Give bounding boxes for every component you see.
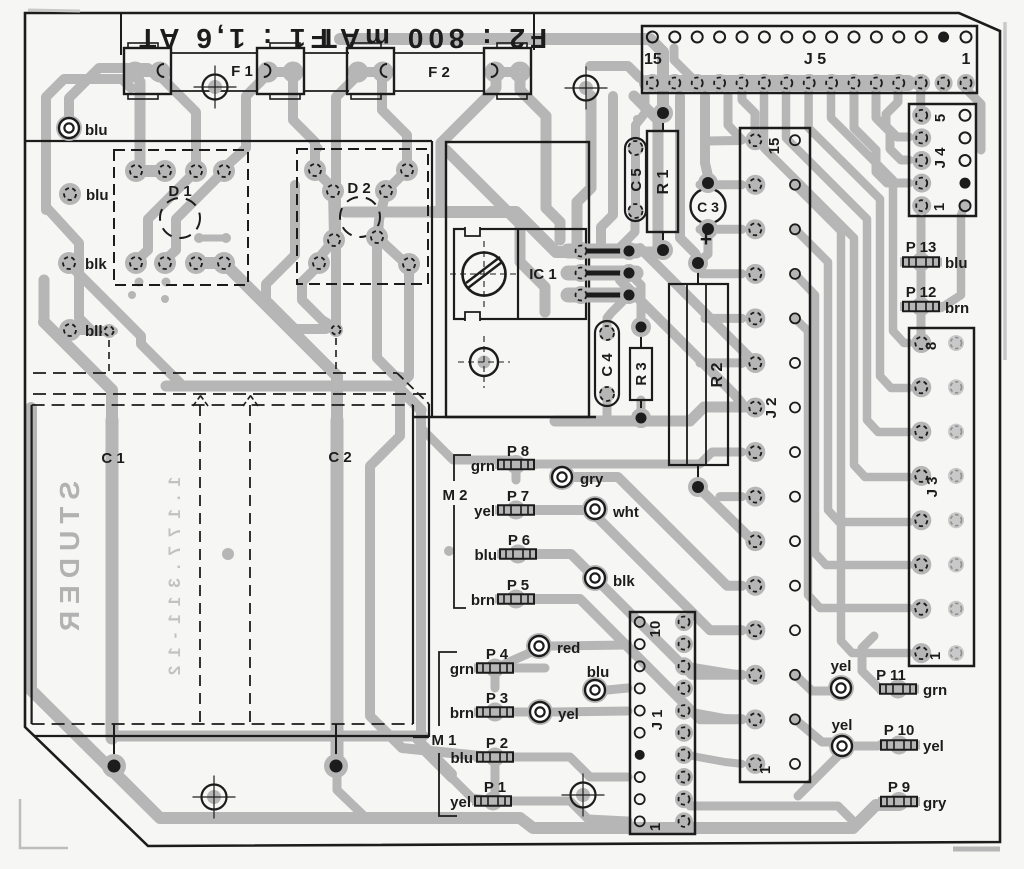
- scan shadow right edge: [1003, 22, 1007, 360]
- svg-text:1: 1: [927, 652, 944, 660]
- wire: [917, 210, 926, 340]
- wire: [601, 96, 613, 246]
- bridge rectifier D1 outline: [114, 150, 248, 285]
- D2 pad 3: [322, 180, 344, 202]
- D1 pad 3: [185, 160, 207, 182]
- wire: [742, 88, 755, 136]
- R1 lead dot bottom: [653, 240, 673, 260]
- small pad: [329, 323, 343, 337]
- J2 pad 14: [745, 175, 765, 195]
- svg-text:gry: gry: [923, 795, 947, 812]
- wire: [70, 327, 114, 335]
- connector J4: [909, 104, 976, 216]
- bracket M1: [439, 652, 457, 816]
- wire: [224, 263, 337, 762]
- J2 pad 8: [745, 442, 765, 462]
- wire: [607, 295, 629, 330]
- wire: [577, 96, 591, 243]
- fuse F1 body: [171, 52, 257, 54]
- J2 hole: [790, 358, 800, 368]
- R2 lead dot top: [688, 253, 708, 273]
- wire: [728, 96, 742, 140]
- wire: [634, 96, 658, 247]
- mounting hole bottom-left: [193, 776, 236, 819]
- svg-text:P 1: P 1: [484, 779, 506, 796]
- svg-text:P 13: P 13: [906, 239, 937, 256]
- J3 pad 2: [911, 599, 931, 619]
- J1 pad 8: [675, 657, 693, 675]
- jumper P12: [900, 297, 942, 316]
- via: [633, 115, 641, 123]
- wire pad blk: [582, 565, 608, 591]
- D1 pad 4: [213, 160, 235, 182]
- wire pad gry: [549, 464, 575, 490]
- IC1 lower hole: [458, 336, 510, 388]
- wire: [687, 666, 742, 675]
- wire: [513, 664, 545, 673]
- svg-text:D 2: D 2: [347, 180, 370, 197]
- J1 hole: [635, 617, 645, 627]
- jumper P1: [472, 792, 514, 811]
- J1 pad 7: [675, 679, 693, 697]
- wire: [112, 731, 423, 742]
- wire: [647, 75, 908, 91]
- IC1 heatsink box: [454, 229, 586, 319]
- J4 pad 5: [912, 106, 931, 125]
- J4 hole: [960, 155, 971, 166]
- D2 pad 6: [366, 226, 388, 248]
- jumper P4: [474, 659, 516, 678]
- wire: [315, 170, 333, 188]
- J1 hole: [635, 816, 645, 826]
- IC1 pin dot 3: [620, 286, 638, 304]
- resistor R3: [630, 348, 652, 400]
- wire: [690, 806, 852, 820]
- J1 hole: [635, 639, 645, 649]
- J2 pad 7: [745, 487, 765, 507]
- wire: [862, 636, 880, 689]
- J2 hole: [790, 135, 800, 145]
- J2 hole: [790, 313, 800, 323]
- J5 pad 8: [800, 74, 818, 92]
- wire: [700, 180, 742, 189]
- wire: [513, 757, 628, 777]
- svg-text:STUDER: STUDER: [54, 481, 85, 638]
- svg-text:R 3: R 3: [633, 362, 650, 385]
- wire: [555, 407, 744, 421]
- dashed region line B: [33, 393, 430, 395]
- strip vertical line: [428, 404, 430, 737]
- J2 hole: [790, 403, 800, 413]
- resistor R2: [669, 284, 728, 465]
- mounting hole top-middle: [565, 67, 608, 110]
- wire: [795, 229, 909, 522]
- wire: [705, 136, 740, 146]
- wire: [224, 72, 270, 168]
- IC1 heatsink divider: [517, 229, 519, 319]
- wire: [702, 269, 742, 278]
- wire: [199, 235, 226, 242]
- capacitor block outline: [32, 405, 429, 736]
- wire: [720, 492, 742, 501]
- J1 pad 2: [675, 790, 693, 808]
- svg-text:F 2: F 2: [428, 64, 450, 81]
- J5 top hole: [871, 32, 882, 43]
- svg-text:8: 8: [923, 342, 940, 350]
- mounting hole top-left: [194, 66, 237, 109]
- wire: [590, 66, 640, 78]
- wire: [302, 266, 335, 328]
- wire pad blu: [582, 677, 608, 703]
- J5 top hole: [849, 32, 860, 43]
- via: [135, 278, 144, 287]
- J2 pad 4: [745, 620, 765, 640]
- svg-text:1.177.311-12: 1.177.311-12: [165, 477, 184, 684]
- J5 top hole: [781, 32, 792, 43]
- wire: [795, 185, 909, 653]
- svg-text:brn: brn: [450, 705, 474, 722]
- J3 pad 4: [911, 510, 931, 530]
- IC1 pin dot 1: [620, 242, 638, 260]
- D2 body circle: [340, 197, 380, 237]
- R3 lead dot bottom: [631, 408, 651, 428]
- J1 hole: [635, 706, 645, 716]
- J2 pad 15: [745, 130, 765, 150]
- svg-text:P 12: P 12: [906, 284, 937, 301]
- R2 lead dot bottom: [688, 477, 708, 497]
- svg-text:P 9: P 9: [888, 779, 910, 796]
- svg-text:R 2: R 2: [709, 362, 726, 387]
- J4 pad 3: [912, 151, 931, 170]
- J2 hole: [790, 180, 800, 190]
- mounting hole bottom-middle: [562, 774, 605, 817]
- svg-text:blk: blk: [85, 256, 107, 273]
- C5 pad top: [628, 140, 644, 156]
- svg-text:yel: yel: [831, 658, 852, 675]
- wire: [575, 477, 742, 586]
- wire: [336, 72, 361, 326]
- D2 pad 5: [323, 229, 345, 251]
- wire: [798, 752, 842, 796]
- IC1 pin pad 2: [572, 264, 590, 282]
- IC1 pin trace 2: [568, 266, 636, 281]
- J2 hole: [790, 447, 800, 457]
- J2 hole: [790, 759, 800, 769]
- wire: [603, 394, 612, 421]
- J3 pad 3: [911, 555, 931, 575]
- connector J5: [642, 26, 977, 93]
- D1 pad 7: [185, 252, 207, 274]
- J2 hole: [790, 269, 800, 279]
- wire: [165, 171, 224, 260]
- connector J3: [909, 328, 974, 666]
- J5 pad 11: [733, 74, 751, 92]
- J5 top hole: [759, 32, 770, 43]
- IC1 pin dot 2: [620, 264, 638, 282]
- wire: [516, 510, 742, 630]
- svg-text:D 1: D 1: [168, 183, 191, 200]
- svg-text:M 1: M 1: [431, 732, 456, 749]
- svg-text:P 6: P 6: [508, 532, 530, 549]
- svg-text:15: 15: [766, 138, 783, 155]
- svg-text:F2 : 800 mAT: F2 : 800 mAT: [315, 23, 547, 54]
- D1 pad 1: [125, 160, 147, 182]
- J5 pad 15: [643, 74, 661, 92]
- jumper P13: [900, 253, 942, 272]
- wire: [31, 600, 897, 828]
- jumper P10: [878, 736, 920, 755]
- wire: [637, 400, 646, 418]
- J2 pad 6: [745, 531, 765, 551]
- wire: [370, 264, 490, 757]
- J4 hole: [960, 110, 971, 121]
- svg-text:1: 1: [931, 203, 948, 211]
- svg-text:R 1: R 1: [655, 169, 672, 194]
- J1 pad 4: [675, 746, 693, 764]
- wire: [698, 487, 753, 541]
- J1 pad 5: [675, 724, 693, 742]
- scan shadow bottom-right: [953, 847, 1000, 852]
- wire: [135, 82, 146, 166]
- wire: [25, 408, 37, 602]
- J4 pad 1: [912, 196, 931, 215]
- wire: [854, 88, 909, 183]
- C2 dashed divider: [249, 405, 251, 724]
- J2 pad 3: [745, 665, 765, 685]
- wire pad blk: [58, 252, 80, 274]
- J5 pad 3: [912, 74, 930, 92]
- J4 hole (filled): [960, 178, 971, 189]
- D1 pad 6: [154, 252, 176, 274]
- fuse clip F2-right: [484, 43, 531, 99]
- J4 pad 2: [912, 174, 931, 193]
- wire: [345, 207, 432, 218]
- svg-text:blu: blu: [451, 750, 474, 767]
- wire: [552, 645, 628, 646]
- J2 pad 10: [745, 353, 765, 373]
- J5 pad 10: [755, 74, 773, 92]
- svg-text:P 11: P 11: [876, 667, 906, 684]
- fuse F2 body: [394, 52, 484, 54]
- C3 lead dot top: [698, 173, 718, 193]
- J3 pad 8: [911, 333, 931, 353]
- C4 pad bottom: [599, 386, 615, 402]
- svg-text:C 4: C 4: [599, 353, 616, 377]
- svg-text:blu: blu: [475, 547, 498, 564]
- svg-text:J 1: J 1: [649, 710, 666, 731]
- J5 pad 5: [867, 74, 885, 92]
- D1 body circle: [160, 198, 200, 238]
- J5 top hole: [669, 32, 680, 43]
- wire: [166, 386, 421, 410]
- D1 pad 2: [154, 160, 176, 182]
- wire: [876, 88, 909, 160]
- svg-text:F 1: F 1: [231, 63, 253, 80]
- svg-text:J 2: J 2: [763, 398, 780, 419]
- svg-text:blk: blk: [613, 573, 635, 590]
- wire: [687, 755, 742, 764]
- J2 hole: [790, 492, 800, 502]
- capacitor C4: [595, 321, 619, 406]
- wire: [382, 72, 407, 167]
- IC1 pin trace 1: [568, 244, 636, 259]
- wire: [75, 270, 180, 383]
- wire: [136, 165, 165, 177]
- wire: [607, 688, 628, 690]
- wire pad yel: [828, 675, 854, 701]
- wire: [516, 599, 742, 719]
- svg-text:yel: yel: [450, 794, 471, 811]
- svg-text:red: red: [557, 640, 580, 657]
- jumper P5: [495, 590, 537, 609]
- separator line below fuses: [25, 140, 432, 142]
- wire: [136, 171, 196, 261]
- J4 pad 4: [912, 128, 931, 147]
- bracket M2: [454, 455, 471, 608]
- IC1 pin lead 1: [586, 249, 626, 254]
- svg-text:15: 15: [644, 51, 662, 68]
- wire: [842, 742, 878, 751]
- wire: [421, 428, 514, 460]
- J1 pad 10: [675, 613, 693, 631]
- svg-text:gry: gry: [580, 471, 604, 488]
- heatsink notch top: [465, 227, 480, 236]
- J3 pad 6: [911, 422, 931, 442]
- wire: [700, 234, 708, 261]
- wire: [680, 96, 698, 259]
- wire: [377, 240, 407, 378]
- J1 pad 9: [675, 635, 693, 653]
- wire: [636, 96, 646, 148]
- jumper P3: [474, 703, 516, 722]
- wire pad yel: [829, 733, 855, 759]
- wire: [491, 673, 500, 688]
- svg-text:P 4: P 4: [486, 646, 509, 663]
- wire: [764, 88, 909, 477]
- wire: [640, 248, 750, 363]
- D2 pad 8: [398, 253, 420, 275]
- wire: [378, 191, 386, 234]
- voltage regulator IC1 outer box: [446, 142, 589, 417]
- vertical line left of IC region: [431, 141, 433, 417]
- wire pad blu (top): [56, 115, 82, 141]
- svg-text:yel: yel: [923, 738, 944, 755]
- wire: [941, 205, 965, 308]
- J5 top hole: [692, 32, 703, 43]
- wire: [441, 74, 496, 212]
- C1 lead: [113, 724, 115, 760]
- scan mark top-left: [28, 10, 80, 11]
- resistor R1: [647, 131, 678, 232]
- C4 pad top: [599, 325, 615, 341]
- J2 hole: [790, 224, 800, 234]
- IC1 pin trace 3: [568, 288, 636, 303]
- svg-text:grn: grn: [923, 682, 947, 699]
- wire: [520, 72, 560, 240]
- svg-text:blu: blu: [85, 122, 108, 139]
- jumper P11: [877, 680, 919, 699]
- svg-text:grn: grn: [450, 661, 474, 678]
- J1 pad 1: [675, 812, 693, 830]
- svg-text:grn: grn: [471, 458, 495, 475]
- svg-text:F1 : 1,6 AT: F1 : 1,6 AT: [134, 23, 327, 54]
- J2 hole: [790, 670, 800, 680]
- wire: [331, 420, 344, 762]
- svg-text:C 1: C 1: [101, 450, 124, 467]
- fuse clip F1-left: [124, 43, 171, 99]
- svg-text:P 8: P 8: [507, 443, 529, 460]
- wire: [700, 225, 742, 234]
- wire: [795, 274, 909, 565]
- jumper P7: [495, 501, 537, 520]
- svg-text:P 3: P 3: [486, 690, 508, 707]
- svg-text:P 7: P 7: [507, 488, 529, 505]
- wire: [511, 801, 628, 821]
- J1 hole: [635, 772, 645, 782]
- J3 pad 1: [911, 643, 931, 663]
- svg-text:P 10: P 10: [884, 722, 915, 739]
- wire: [421, 410, 452, 778]
- R3 lead dot top: [631, 317, 651, 337]
- wire: [831, 88, 909, 343]
- via: [444, 546, 454, 556]
- J5 top hole: [826, 32, 837, 43]
- J5 pad 2: [935, 74, 953, 92]
- svg-text:J 4: J 4: [932, 147, 949, 169]
- jumper P6: [497, 545, 539, 564]
- capacitor C3: [691, 189, 726, 224]
- svg-text:10: 10: [647, 621, 664, 638]
- D2 pad 1: [304, 159, 326, 181]
- C1 dashed divider: [199, 405, 201, 724]
- C1 solder pad: [102, 754, 126, 778]
- wire: [795, 318, 909, 608]
- J2 hole: [790, 625, 800, 635]
- wire: [446, 150, 545, 312]
- via: [221, 233, 231, 243]
- svg-text:+: +: [700, 228, 712, 251]
- via: [128, 291, 136, 299]
- J2 pad 2: [745, 709, 765, 729]
- J5 pad 1: [957, 74, 975, 92]
- J2 pad 9: [745, 398, 765, 418]
- wire: [114, 770, 150, 806]
- wire: [886, 88, 909, 137]
- J2 hole: [790, 714, 800, 724]
- wire: [46, 207, 107, 331]
- svg-text:blu: blu: [587, 664, 610, 681]
- wire: [340, 39, 663, 112]
- J5 top hole: [893, 32, 904, 43]
- svg-text:IC 1: IC 1: [529, 266, 557, 283]
- wire: [629, 273, 641, 323]
- J2 pad 13: [745, 219, 765, 239]
- svg-text:wht: wht: [612, 504, 639, 521]
- J5 pad 9: [778, 74, 796, 92]
- wire: [160, 76, 196, 166]
- wire: [196, 257, 224, 269]
- wire: [39, 280, 50, 322]
- J3 pad 5: [911, 466, 931, 486]
- wire: [452, 778, 494, 801]
- via: [194, 233, 204, 243]
- J1 hole (filled): [635, 750, 645, 760]
- wire: [553, 711, 628, 712]
- J5 pad 13: [688, 74, 706, 92]
- wire: [916, 88, 925, 109]
- wire: [795, 719, 842, 746]
- fuse clip F2-left: [347, 43, 394, 99]
